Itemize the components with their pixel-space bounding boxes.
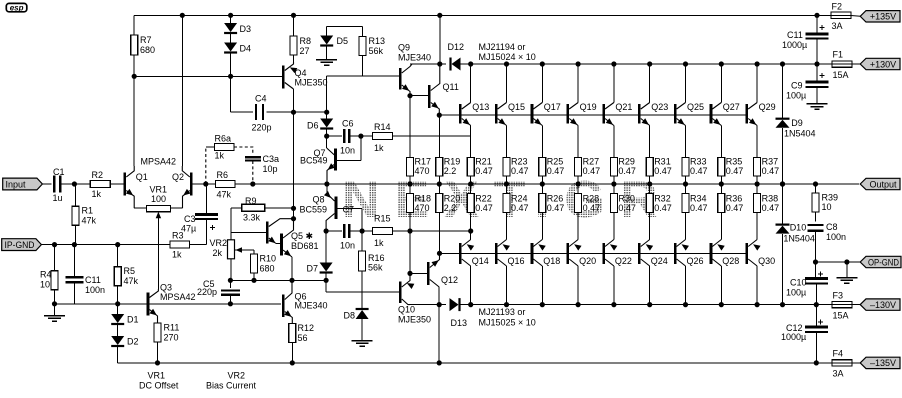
node R7 bottom junction — [132, 74, 137, 79]
wire F2 to tag — [851, 15, 861, 18]
svg-text:R1: R1 — [82, 206, 94, 216]
svg-text:270: 270 — [164, 333, 179, 343]
svg-text:MJE340: MJE340 — [398, 53, 431, 63]
transistor Q6 MJE340 — [283, 280, 327, 323]
resistor R18 — [407, 194, 432, 274]
resistor R15 — [373, 214, 393, 249]
node driver rail bottom junction — [437, 302, 442, 307]
svg-text:R8: R8 — [300, 36, 312, 46]
node -130V tag — [860, 299, 900, 310]
svg-text:esp: esp — [10, 4, 24, 13]
wire C6 node line — [327, 135, 342, 137]
node Q5 collector junction — [291, 216, 296, 221]
wire R18 column — [409, 184, 411, 194]
svg-text:R27: R27 — [583, 157, 600, 167]
potentiometer VR2 — [210, 232, 255, 280]
svg-text:D1: D1 — [127, 315, 139, 325]
svg-text:Q1: Q1 — [136, 172, 148, 182]
svg-text:D9: D9 — [791, 118, 803, 128]
svg-text:MPSA42: MPSA42 — [160, 292, 196, 302]
resistor R11 — [154, 323, 179, 363]
fuse F2 — [831, 2, 851, 32]
transistor Q21 — [604, 61, 633, 157]
wire R4 C11 to reference line — [55, 303, 149, 305]
svg-text:Q3: Q3 — [160, 283, 172, 293]
node R17 output junction — [407, 181, 412, 186]
svg-text:R16: R16 — [368, 253, 385, 263]
node R21 output junction — [468, 181, 473, 186]
svg-text:R23: R23 — [511, 157, 528, 167]
transistor Q15 — [496, 61, 525, 157]
svg-text:R29: R29 — [618, 157, 635, 167]
node R8 top junction — [291, 13, 296, 18]
svg-text:0.47: 0.47 — [762, 203, 780, 213]
node R16 top junction — [360, 228, 365, 233]
svg-text:47k: 47k — [124, 276, 139, 286]
wire R15 to output stage — [393, 230, 471, 232]
node Output tag — [860, 178, 900, 189]
resistor R39 — [812, 181, 838, 221]
transistor Q11 — [429, 64, 459, 115]
svg-text:47k: 47k — [82, 216, 97, 226]
svg-text:D4: D4 — [240, 44, 252, 54]
node OP-GND tag — [860, 256, 901, 267]
svg-text:R35: R35 — [726, 157, 743, 167]
resistor R12 — [289, 323, 314, 363]
svg-text:R15: R15 — [374, 214, 391, 224]
svg-text:56: 56 — [298, 333, 308, 343]
resistor R27 — [575, 157, 601, 185]
transistor Q7 BC549 — [300, 136, 361, 184]
node R33 output junction — [683, 181, 688, 186]
svg-text:3.3k: 3.3k — [243, 213, 261, 223]
transistor Q25 — [675, 61, 704, 157]
node Q12 emitter junction — [437, 251, 442, 256]
wire Q1 collector line — [133, 76, 135, 166]
node C10 junction — [814, 302, 819, 307]
svg-text:C1: C1 — [53, 167, 65, 177]
resistor R24 — [503, 184, 529, 213]
svg-text:D8: D8 — [344, 311, 356, 321]
node R10 bottom junction — [251, 278, 256, 283]
svg-text:D12: D12 — [448, 42, 465, 52]
svg-text:D2: D2 — [127, 337, 139, 347]
svg-text:MJ21193 or: MJ21193 or — [479, 307, 526, 317]
svg-text:Q22: Q22 — [615, 256, 632, 266]
svg-text:Q16: Q16 — [508, 256, 525, 266]
transistor Q13 — [460, 61, 489, 136]
svg-text:100n: 100n — [826, 232, 846, 242]
svg-text:0.47: 0.47 — [511, 203, 529, 213]
wire bottom base rail — [440, 252, 747, 254]
svg-text:Q29: Q29 — [759, 102, 776, 112]
node D7 bottom junction — [324, 278, 329, 283]
resistor R37 — [754, 157, 780, 185]
resistor R3 — [170, 231, 207, 260]
node R5 junction — [115, 242, 120, 247]
svg-text:R37: R37 — [762, 157, 779, 167]
node Q8 base junction — [324, 228, 329, 233]
wire D1 to D2 — [117, 325, 119, 337]
svg-text:Q18: Q18 — [543, 256, 560, 266]
svg-text:C11: C11 — [85, 275, 101, 285]
svg-text:10p: 10p — [263, 164, 278, 174]
transistor Q19 — [568, 61, 597, 157]
svg-text:1000µ: 1000µ — [782, 40, 807, 50]
transistor Q18 — [532, 213, 560, 308]
resistor R5 — [114, 245, 138, 304]
node Q11 emitter junction — [437, 113, 442, 118]
diode D10 — [776, 181, 815, 307]
capacitor C8 — [808, 222, 847, 262]
svg-text:1N5404: 1N5404 — [783, 233, 815, 243]
wire D3 to D4 — [230, 34, 232, 43]
svg-text:Q10: Q10 — [398, 305, 415, 315]
capacitor C9 — [806, 64, 829, 104]
node R1 junction — [72, 242, 77, 247]
resistor R20 — [436, 194, 461, 254]
wire input to C1 — [42, 183, 51, 185]
transistor Q10 MJE350 — [326, 273, 431, 324]
svg-text:Q4: Q4 — [295, 68, 307, 78]
svg-text:3A: 3A — [833, 369, 844, 379]
diode D5 — [320, 27, 362, 47]
transistor Q16 — [496, 213, 524, 308]
wire Q9e to Q11 base — [410, 95, 428, 97]
svg-text:470: 470 — [415, 166, 430, 176]
node MJ21193 label — [479, 307, 536, 328]
node D3 top junction — [228, 13, 233, 18]
svg-text:0.47: 0.47 — [726, 203, 744, 213]
resistor R31 — [646, 157, 672, 185]
capacitor C6 — [340, 119, 355, 156]
svg-text:0.47: 0.47 — [511, 166, 529, 176]
resistor R16 — [359, 231, 385, 310]
transistor Q8 BC559 — [300, 184, 363, 231]
svg-text:0.47: 0.47 — [547, 203, 565, 213]
capacitor C10 — [786, 262, 828, 305]
node D1 junction — [115, 301, 120, 306]
wire R19 column — [438, 115, 440, 157]
wire VAS column upper — [293, 112, 295, 219]
wire IP-GND line — [41, 244, 170, 246]
wire +135V top rail — [134, 14, 831, 16]
transistor Q20 — [568, 213, 596, 308]
svg-text:C9: C9 — [791, 81, 803, 91]
svg-text:R7: R7 — [140, 35, 152, 45]
svg-text:Q27: Q27 — [723, 102, 740, 112]
svg-text:+130V: +130V — [870, 59, 896, 69]
resistor R35 — [718, 157, 744, 185]
node MJ21194 label — [479, 42, 536, 62]
svg-text:15A: 15A — [833, 70, 849, 80]
diode D4 — [224, 43, 251, 54]
svg-text:Q30: Q30 — [758, 256, 775, 266]
node Q10 emitter junction — [407, 271, 412, 276]
svg-text:R5: R5 — [124, 266, 136, 276]
svg-text:Q11: Q11 — [443, 82, 459, 92]
watermark — [342, 171, 672, 229]
node R23 output junction — [504, 181, 509, 186]
svg-text:100: 100 — [151, 194, 166, 204]
diode D8 — [344, 309, 369, 321]
svg-text:VR1: VR1 — [150, 185, 168, 195]
node Q7 emitter junction — [324, 181, 329, 186]
node Q2 base junction — [203, 181, 208, 186]
node +135V tag — [860, 11, 900, 22]
wire bias line — [230, 279, 326, 281]
wire +130V rail segment — [459, 63, 833, 65]
svg-text:F4: F4 — [833, 349, 844, 359]
wire VAS to D6 — [294, 111, 327, 113]
svg-text:0.47: 0.47 — [726, 166, 744, 176]
wire -130V rail segment — [460, 304, 832, 306]
svg-text:F2: F2 — [832, 2, 843, 12]
svg-text:D7: D7 — [307, 264, 319, 274]
svg-text:C3: C3 — [184, 214, 196, 224]
svg-text:2.2: 2.2 — [444, 166, 457, 176]
svg-text:R2: R2 — [92, 170, 104, 180]
svg-text:R14: R14 — [374, 122, 391, 132]
wire F1 to tag — [852, 63, 861, 65]
svg-text:BC559: BC559 — [300, 205, 328, 215]
node Q5 emitter junction — [289, 278, 294, 283]
svg-text:R32: R32 — [654, 194, 671, 204]
svg-text:R9: R9 — [245, 196, 257, 206]
svg-text:Bias Current: Bias Current — [206, 381, 257, 391]
wire C1 to R2 — [60, 183, 90, 185]
wire C7 line — [326, 230, 342, 232]
svg-text:0.47: 0.47 — [475, 203, 493, 213]
wire LTP collector to Q4 base — [134, 75, 281, 77]
svg-text:C3a: C3a — [263, 154, 280, 164]
svg-text:D13: D13 — [451, 318, 468, 328]
svg-text:0.47: 0.47 — [583, 203, 601, 213]
svg-text:10: 10 — [40, 280, 50, 290]
node R4 gnd junction — [52, 301, 57, 306]
transistor Q9 MJE340 — [398, 43, 431, 96]
node R18 junction — [407, 228, 412, 233]
wire dashed R6a right — [234, 147, 253, 155]
capacitor C5 — [197, 279, 240, 304]
svg-text:R33: R33 — [690, 157, 707, 167]
svg-text:Q14: Q14 — [472, 256, 489, 266]
svg-text:R10: R10 — [260, 254, 277, 264]
wire F3 to tag — [852, 304, 861, 306]
resistor R36 — [718, 184, 744, 213]
svg-text:MJE350: MJE350 — [295, 78, 328, 88]
wire D6 to C6 node — [326, 129, 328, 136]
svg-text:R20: R20 — [444, 194, 461, 204]
transistor Q29 — [747, 61, 776, 157]
svg-text:Q24: Q24 — [651, 256, 668, 266]
transistor Q4 MJE350 — [269, 62, 328, 112]
ground C9 — [807, 104, 828, 110]
svg-text:R11: R11 — [164, 323, 180, 333]
svg-text:100µ: 100µ — [786, 91, 806, 101]
svg-text:R22: R22 — [475, 194, 492, 204]
svg-text:680: 680 — [260, 264, 275, 274]
transistor Q3 — [148, 283, 196, 324]
svg-text:Q19: Q19 — [580, 102, 597, 112]
svg-text:0.47: 0.47 — [654, 203, 672, 213]
svg-text:0.47: 0.47 — [618, 166, 636, 176]
wire R17 column — [409, 96, 411, 158]
fuse F4 — [832, 349, 852, 379]
svg-text:R19: R19 — [444, 157, 461, 167]
svg-text:0.47: 0.47 — [762, 166, 780, 176]
transistor Q24 — [639, 213, 667, 308]
resistor R7 — [131, 15, 155, 76]
node D4 bottom junction — [228, 74, 233, 79]
svg-text:VR2: VR2 — [228, 371, 246, 381]
svg-text:C4: C4 — [255, 94, 267, 104]
svg-text:Q20: Q20 — [579, 256, 596, 266]
node input junction — [72, 181, 77, 186]
capacitor C12 — [781, 305, 828, 363]
svg-text:2k: 2k — [213, 248, 223, 258]
transistor Q30 — [747, 213, 775, 308]
wire R2 to Q1 base — [110, 183, 124, 185]
wire C6 to R14 — [349, 135, 372, 137]
ground D5 — [316, 46, 337, 65]
svg-text:C8: C8 — [826, 222, 838, 232]
capacitor C4 — [231, 76, 294, 132]
wire VR1 wiper to Q3 collector — [157, 224, 159, 289]
svg-text:R31: R31 — [654, 157, 671, 167]
resistor R38 — [754, 184, 780, 213]
svg-text:R6a: R6a — [215, 134, 232, 144]
diode D9 — [776, 61, 816, 186]
wire D2 to -135 rail — [117, 347, 119, 363]
svg-text:R25: R25 — [547, 157, 564, 167]
diode D2 — [111, 336, 138, 347]
svg-text:R4: R4 — [40, 270, 52, 280]
svg-text:0.47: 0.47 — [690, 166, 708, 176]
node input tag — [3, 178, 43, 190]
wire Q10e to Q12 base — [410, 272, 427, 274]
svg-text:1k: 1k — [374, 143, 384, 153]
svg-text:27: 27 — [300, 46, 310, 56]
svg-text:1N5404: 1N5404 — [784, 128, 816, 138]
resistor R19 — [436, 157, 461, 185]
svg-text:10n: 10n — [340, 146, 355, 156]
wire driver bottom to -135 — [437, 305, 442, 366]
svg-text:C10: C10 — [790, 278, 807, 288]
svg-text:Q26: Q26 — [687, 256, 704, 266]
node R29 output junction — [611, 181, 616, 186]
resistor R14 — [373, 122, 393, 153]
svg-text:Q23: Q23 — [651, 102, 668, 112]
svg-text:R3: R3 — [172, 231, 184, 241]
svg-text:C6: C6 — [342, 119, 354, 129]
svg-text:R18: R18 — [415, 194, 432, 204]
diode D1 — [111, 304, 138, 325]
ground input — [44, 304, 65, 322]
transistor Q28 — [711, 213, 739, 308]
svg-text:220p: 220p — [252, 123, 272, 133]
node gnd stub junction — [844, 259, 849, 264]
resistor R8 — [290, 15, 311, 62]
capacitor C1 — [53, 167, 65, 203]
ground OP-GND — [836, 262, 857, 283]
resistor R29 — [610, 157, 636, 185]
svg-text:10: 10 — [822, 202, 832, 212]
resistor R26 — [539, 184, 565, 213]
wire reference line right — [148, 303, 281, 305]
svg-text:R24: R24 — [511, 194, 528, 204]
svg-text:0.47: 0.47 — [654, 166, 672, 176]
node R25 output junction — [540, 181, 545, 186]
node C3a junction — [250, 181, 255, 186]
resistor R28 — [575, 184, 601, 213]
node C9 junction — [814, 61, 819, 66]
svg-text:680: 680 — [140, 45, 155, 55]
wire R14 to Q13 emitter — [393, 135, 471, 137]
wire output rail — [206, 183, 859, 185]
svg-text:R39: R39 — [822, 193, 839, 203]
svg-text:100µ: 100µ — [786, 288, 806, 298]
transistor Q12 — [428, 253, 458, 304]
svg-text:Q8: Q8 — [313, 195, 325, 205]
node IP-GND tag — [2, 239, 42, 251]
svg-text:R21: R21 — [475, 157, 492, 167]
svg-text:R38: R38 — [762, 194, 779, 204]
resistor R4 — [40, 245, 58, 304]
resistor R2 — [90, 170, 110, 199]
node C12 junction — [814, 360, 819, 365]
wire R20 column — [438, 184, 440, 194]
transistor Q1 — [110, 157, 176, 209]
ground D8 — [352, 319, 373, 346]
svg-text:1k: 1k — [92, 189, 102, 199]
svg-text:C7: C7 — [343, 205, 355, 215]
resistor R17 — [407, 157, 432, 185]
node R11 bottom — [155, 360, 160, 365]
svg-text:15A: 15A — [833, 311, 849, 321]
transistor Q14 — [460, 213, 488, 308]
node C6 junction — [324, 134, 329, 139]
svg-text:D3: D3 — [240, 24, 252, 34]
node R9 VAS junction — [291, 206, 296, 211]
diode D6 — [307, 112, 333, 130]
svg-text:R13: R13 — [369, 36, 386, 46]
node VR1 label — [139, 371, 179, 391]
capacitor C11 supply — [782, 13, 829, 64]
svg-text:1k: 1k — [215, 151, 225, 161]
svg-text:D6: D6 — [307, 121, 319, 131]
svg-text:R17: R17 — [415, 157, 432, 167]
node OP-GND junction — [813, 259, 818, 264]
svg-text:0.47: 0.47 — [547, 166, 565, 176]
svg-text:Q21: Q21 — [615, 102, 632, 112]
potentiometer VR1 — [134, 185, 182, 225]
node C9 label — [786, 73, 825, 101]
wire Q9 base line — [327, 76, 399, 112]
svg-text:Output: Output — [869, 179, 897, 189]
wire dashed C3a bottom — [252, 161, 254, 184]
node D6 top junction — [324, 110, 329, 115]
resistor R10 — [251, 250, 277, 280]
svg-text:220p: 220p — [197, 287, 217, 297]
svg-text:56k: 56k — [369, 46, 384, 56]
svg-text:VR2: VR2 — [210, 238, 228, 248]
node Q7 collector junction — [358, 134, 363, 139]
svg-text:Q5 ✱: Q5 ✱ — [291, 231, 313, 241]
svg-text:0.47: 0.47 — [475, 166, 493, 176]
svg-text:1000µ: 1000µ — [781, 332, 806, 342]
resistor R34 — [682, 184, 708, 213]
